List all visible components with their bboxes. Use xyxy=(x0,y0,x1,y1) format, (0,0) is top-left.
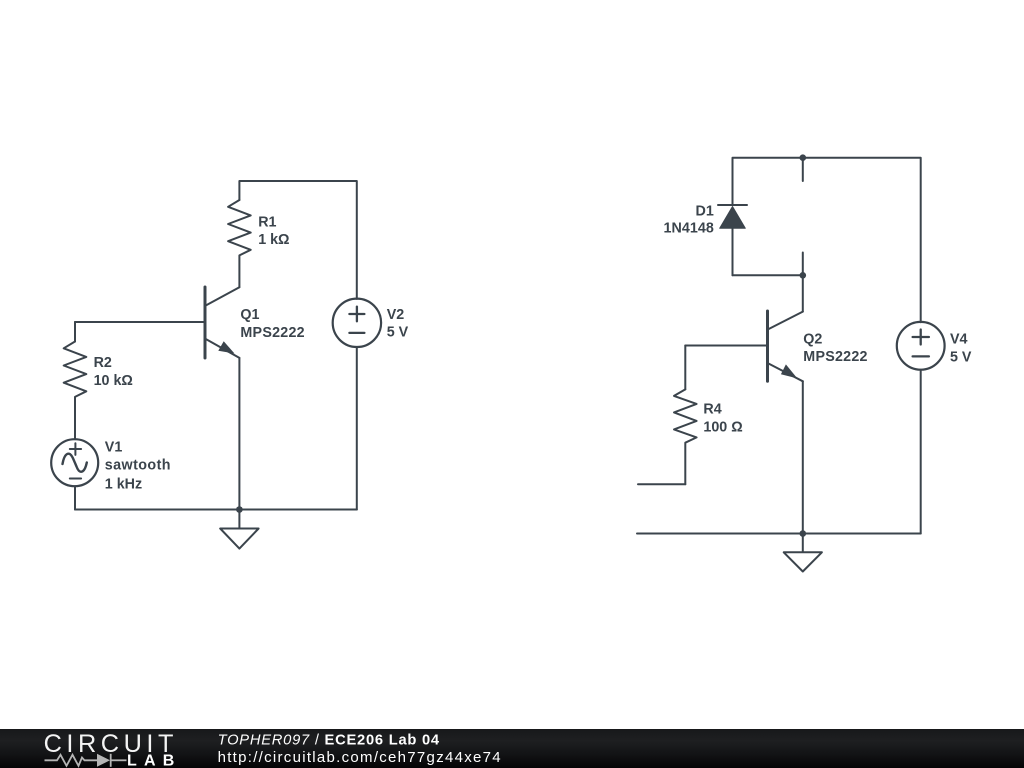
ground right xyxy=(784,534,822,572)
svg-text:5 V: 5 V xyxy=(387,325,409,341)
resistor R2 xyxy=(64,322,87,439)
wire base Q1 xyxy=(75,321,204,323)
node emitter-ground junction left xyxy=(236,506,243,513)
svg-text:R2: R2 xyxy=(94,355,112,371)
wire top rail left circuit xyxy=(239,181,356,299)
voltage source V4 xyxy=(897,322,945,370)
diode D1 xyxy=(718,205,747,275)
svg-text:1 kHz: 1 kHz xyxy=(105,476,142,492)
svg-text:1N4148: 1N4148 xyxy=(664,221,714,237)
wire stub above collector node xyxy=(802,253,804,276)
svg-text:Q1: Q1 xyxy=(240,307,259,323)
svg-text:MPS2222: MPS2222 xyxy=(240,325,304,341)
svg-text:D1: D1 xyxy=(696,204,714,220)
wire D1 bottom to collector node xyxy=(733,274,803,276)
voltage source V1 sawtooth xyxy=(51,439,98,486)
svg-text:R1: R1 xyxy=(258,215,276,231)
svg-text:LAB: LAB xyxy=(127,753,181,768)
wire base Q2 xyxy=(685,345,766,347)
svg-text:TOPHER097 / ECE206 Lab 04: TOPHER097 / ECE206 Lab 04 xyxy=(218,733,440,749)
wire V2 bottom xyxy=(356,347,358,510)
svg-text:MPS2222: MPS2222 xyxy=(803,349,867,365)
svg-text:V4: V4 xyxy=(950,332,968,348)
wire V4 bottom xyxy=(920,370,922,534)
svg-text:5 V: 5 V xyxy=(950,350,972,366)
transistor Q2 xyxy=(768,311,803,381)
wire R4 bottom stub xyxy=(638,483,685,485)
node emitter-ground junction right xyxy=(800,530,807,537)
footer bar xyxy=(0,729,1024,768)
svg-text:Q2: Q2 xyxy=(803,331,822,347)
svg-text:10 kΩ: 10 kΩ xyxy=(94,373,133,389)
resistor R4 xyxy=(674,346,697,485)
resistor R1 xyxy=(228,200,251,287)
wire V1 bottom xyxy=(74,486,76,509)
voltage source V2 xyxy=(333,299,381,347)
svg-text:sawtooth: sawtooth xyxy=(105,458,171,474)
svg-text:V1: V1 xyxy=(105,439,123,455)
node top rail junction xyxy=(800,154,807,161)
wire emitter Q1 to ground rail xyxy=(238,358,240,510)
wire bottom rail left circuit xyxy=(75,509,357,511)
svg-text:100 Ω: 100 Ω xyxy=(703,420,742,436)
wire stub below top rail xyxy=(802,158,804,181)
svg-text:http://circuitlab.com/ceh77gz4: http://circuitlab.com/ceh77gz44xe74 xyxy=(218,749,501,766)
svg-text:1 kΩ: 1 kΩ xyxy=(258,232,289,248)
wire collector Q2 xyxy=(802,275,804,311)
transistor Q1 xyxy=(205,287,239,358)
wire top rail right circuit xyxy=(733,158,921,323)
logo squiggle resistor-diode xyxy=(45,754,127,767)
node collector junction xyxy=(800,272,807,279)
wire bottom rail right circuit xyxy=(637,533,921,535)
ground left xyxy=(220,510,258,549)
svg-text:V2: V2 xyxy=(387,307,405,323)
svg-text:R4: R4 xyxy=(703,402,721,418)
wire emitter Q2 down xyxy=(802,381,804,533)
